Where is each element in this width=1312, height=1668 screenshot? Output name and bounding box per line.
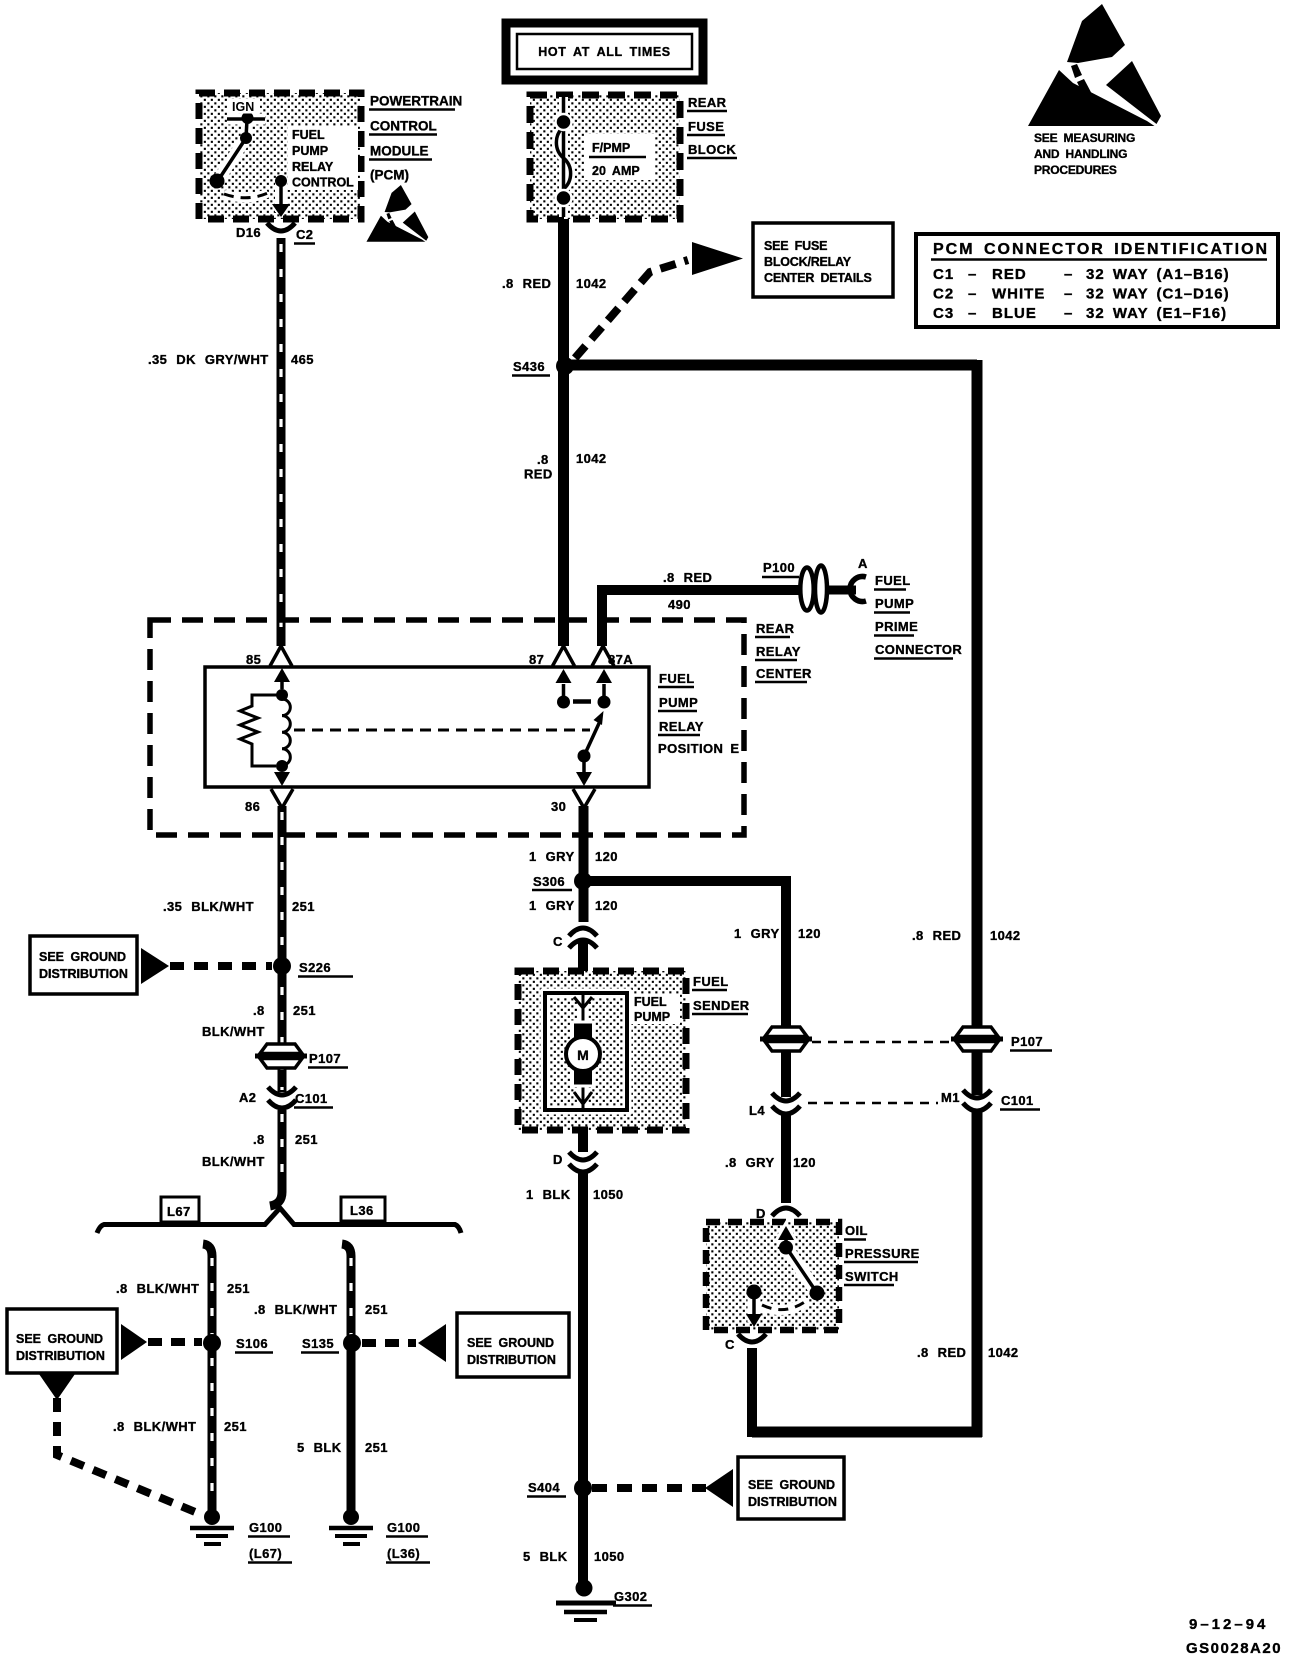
see ground distribution box (S135) bbox=[457, 1313, 569, 1377]
svg-text:D: D bbox=[756, 1206, 766, 1221]
svg-text:SEE FUSE: SEE FUSE bbox=[764, 239, 827, 253]
ESD symbol small near PCM bbox=[366, 185, 428, 242]
L36 option label box bbox=[341, 1197, 385, 1221]
label FUEL PUMP RELAY CONTROL bbox=[288, 126, 358, 190]
svg-text:CENTER: CENTER bbox=[756, 666, 812, 681]
svg-text:.8: .8 bbox=[253, 1132, 265, 1147]
wire: .8 GRY 120 from L4 to oil pressure switch D bbox=[781, 1113, 791, 1203]
terminal A fuel pump prime connector (crescent) bbox=[850, 577, 866, 602]
svg-text:DISTRIBUTION: DISTRIBUTION bbox=[39, 967, 128, 981]
svg-text:–: – bbox=[968, 305, 977, 322]
svg-text:–: – bbox=[1064, 305, 1073, 322]
svg-text:S135: S135 bbox=[302, 1336, 334, 1351]
svg-text:G100: G100 bbox=[387, 1520, 420, 1535]
svg-text:86: 86 bbox=[245, 799, 260, 814]
relay pin 87A fork bbox=[592, 646, 614, 666]
svg-text:PUMP: PUMP bbox=[875, 596, 914, 611]
svg-text:P107: P107 bbox=[1011, 1034, 1043, 1049]
svg-text:465: 465 bbox=[291, 352, 314, 367]
svg-text:PUMP: PUMP bbox=[292, 144, 328, 158]
wire: bottom horizontal from oil pressure switch C to red wire bbox=[752, 1427, 982, 1438]
svg-text:.8 RED: .8 RED bbox=[917, 1345, 966, 1360]
svg-text:(L67): (L67) bbox=[249, 1546, 282, 1561]
label SEE FUSE BLOCK/RELAY CENTER DETAILS bbox=[764, 239, 872, 285]
svg-text:FUEL: FUEL bbox=[693, 974, 729, 989]
connector D16/C2 at PCM (single arc) bbox=[267, 223, 295, 231]
PCM box (stippled) powertrain control module bbox=[199, 93, 361, 219]
label POWERTRAIN CONTROL MODULE (PCM) bbox=[370, 94, 462, 183]
connector D at fuel sender (two arcs) bbox=[569, 1152, 597, 1160]
svg-text:.8 GRY: .8 GRY bbox=[725, 1155, 775, 1170]
relay coil with resistor bbox=[240, 668, 290, 786]
label FUEL PUMP PRIME CONNECTOR bbox=[875, 573, 962, 657]
svg-text:251: 251 bbox=[227, 1281, 250, 1296]
svg-text:1042: 1042 bbox=[988, 1345, 1019, 1360]
svg-text:32 WAY (C1–D16): 32 WAY (C1–D16) bbox=[1086, 286, 1230, 303]
rear relay center (dashed box) bbox=[150, 620, 744, 835]
node S404 splice bbox=[574, 1479, 592, 1497]
node S436 splice bbox=[556, 357, 574, 375]
HOT AT ALL TIMES box bbox=[506, 23, 703, 80]
svg-text:120: 120 bbox=[798, 926, 821, 941]
svg-text:G100: G100 bbox=[249, 1520, 282, 1535]
wire: 1 BLK 1050 from sender D connector down to S404 and G302 bbox=[578, 1111, 588, 1152]
svg-text:C101: C101 bbox=[1001, 1093, 1034, 1108]
node S106 splice bbox=[203, 1334, 221, 1352]
svg-text:RELAY: RELAY bbox=[756, 644, 801, 659]
svg-text:DISTRIBUTION: DISTRIBUTION bbox=[748, 1495, 837, 1509]
connector P107 on BLK/WHT wire bbox=[255, 1044, 307, 1068]
svg-text:PROCEDURES: PROCEDURES bbox=[1034, 163, 1117, 177]
wire: L36 branch .8 BLK/WHT 251 then 5 BLK 251 bbox=[342, 1244, 351, 1512]
svg-text:251: 251 bbox=[224, 1419, 247, 1434]
svg-text:A2: A2 bbox=[239, 1090, 256, 1105]
svg-text:1 BLK: 1 BLK bbox=[526, 1187, 571, 1202]
svg-text:.8: .8 bbox=[253, 1003, 265, 1018]
connector L4 on GRY wire (two arcs) bbox=[772, 1093, 800, 1101]
svg-text:SEE GROUND: SEE GROUND bbox=[16, 1332, 103, 1346]
svg-text:–: – bbox=[968, 286, 977, 303]
relay pin 85 fork bbox=[270, 646, 292, 666]
svg-text:C101: C101 bbox=[295, 1091, 328, 1106]
connector C at oil pressure switch (single arc) bbox=[738, 1334, 766, 1342]
label IGN bbox=[228, 99, 260, 113]
see fuse block/relay center details box bbox=[753, 223, 893, 297]
svg-text:.8 RED: .8 RED bbox=[502, 276, 551, 291]
svg-text:SENDER: SENDER bbox=[693, 998, 750, 1013]
PCM connector identification box bbox=[916, 234, 1278, 327]
svg-text:P107: P107 bbox=[309, 1051, 341, 1066]
svg-text:PCM CONNECTOR IDENTIFICATION: PCM CONNECTOR IDENTIFICATION bbox=[933, 241, 1269, 258]
svg-text:87: 87 bbox=[529, 652, 544, 667]
node S135 splice bbox=[343, 1334, 361, 1352]
label REAR RELAY CENTER bbox=[756, 621, 812, 681]
svg-text:87A: 87A bbox=[608, 652, 633, 667]
svg-text:L36: L36 bbox=[350, 1203, 374, 1218]
dashed link S226 to see-ground-distribution bbox=[170, 962, 272, 970]
svg-text:PUMP: PUMP bbox=[659, 695, 698, 710]
label OIL PRESSURE SWITCH bbox=[845, 1223, 920, 1284]
svg-text:AND HANDLING: AND HANDLING bbox=[1034, 147, 1127, 161]
svg-text:251: 251 bbox=[365, 1440, 388, 1455]
svg-text:120: 120 bbox=[595, 898, 618, 913]
svg-text:FUEL: FUEL bbox=[875, 573, 911, 588]
svg-text:SWITCH: SWITCH bbox=[845, 1269, 899, 1284]
relay contacts 87/87A/30 bbox=[556, 669, 613, 786]
relay pin 86 fork bbox=[271, 789, 293, 808]
svg-text:1050: 1050 bbox=[593, 1187, 624, 1202]
svg-text:.8 RED: .8 RED bbox=[663, 570, 712, 585]
svg-text:D16: D16 bbox=[236, 225, 261, 240]
svg-text:GS0028A20: GS0028A20 bbox=[1186, 1640, 1282, 1657]
svg-text:(PCM): (PCM) bbox=[370, 168, 409, 183]
oil pressure switch contacts bbox=[746, 1226, 825, 1327]
svg-text:FUEL: FUEL bbox=[659, 671, 695, 686]
relay pin 30 fork bbox=[573, 789, 595, 808]
wire: fuel sender feed between C connector and sender box bbox=[578, 941, 588, 996]
svg-text:SEE GROUND: SEE GROUND bbox=[748, 1478, 835, 1492]
svg-text:1042: 1042 bbox=[990, 928, 1021, 943]
svg-text:251: 251 bbox=[295, 1132, 318, 1147]
svg-text:5 BLK: 5 BLK bbox=[523, 1549, 568, 1564]
see ground distribution box (S226) bbox=[30, 936, 137, 994]
svg-text:L4: L4 bbox=[749, 1103, 765, 1118]
oil pressure switch (stippled box) bbox=[706, 1222, 839, 1330]
dashed arrow from S436 to see-fuse-block note bbox=[575, 260, 688, 358]
svg-text:–: – bbox=[1064, 286, 1073, 303]
wire: right vertical .8 RED 1042 lower segment bbox=[972, 1111, 983, 1437]
rear fuse block (stippled box) bbox=[530, 95, 680, 219]
svg-text:PRIME: PRIME bbox=[875, 619, 918, 634]
ground G302 bbox=[576, 1580, 593, 1597]
svg-text:RED: RED bbox=[992, 266, 1027, 283]
wire: S306 branch right 1 GRY 120 bbox=[588, 881, 786, 1030]
connector P100 inline lenses bbox=[800, 568, 813, 611]
svg-text:BLOCK: BLOCK bbox=[688, 142, 736, 157]
svg-text:A: A bbox=[858, 556, 868, 571]
svg-text:20 AMP: 20 AMP bbox=[592, 164, 640, 178]
svg-text:RED: RED bbox=[524, 467, 553, 482]
svg-text:DISTRIBUTION: DISTRIBUTION bbox=[467, 1353, 556, 1367]
label F/PMP 20 AMP bbox=[584, 134, 654, 180]
svg-text:.8 RED: .8 RED bbox=[912, 928, 961, 943]
dashed link S106 to see-ground-distribution bbox=[148, 1338, 202, 1346]
svg-text:S436: S436 bbox=[513, 359, 545, 374]
svg-text:CONTROL: CONTROL bbox=[370, 119, 437, 134]
svg-text:PUMP: PUMP bbox=[634, 1010, 670, 1024]
fuel pump relay control switch inside PCM bbox=[210, 112, 291, 217]
svg-text:DISTRIBUTION: DISTRIBUTION bbox=[16, 1349, 105, 1363]
svg-text:32 WAY (E1–F16): 32 WAY (E1–F16) bbox=[1086, 305, 1227, 322]
svg-text:5 BLK: 5 BLK bbox=[297, 1440, 342, 1455]
connector C at fuel sender (two arcs) bbox=[569, 928, 597, 936]
svg-text:SEE GROUND: SEE GROUND bbox=[39, 950, 126, 964]
svg-text:POSITION E: POSITION E bbox=[658, 741, 739, 756]
svg-text:.35 DK GRY/WHT: .35 DK GRY/WHT bbox=[148, 352, 269, 367]
svg-text:BLUE: BLUE bbox=[992, 305, 1037, 322]
wire: engine option split bracket L67/L36 bbox=[97, 1208, 461, 1233]
thin dashed association line L4 to M1 C101 bbox=[808, 1102, 938, 1105]
svg-text:MODULE: MODULE bbox=[370, 144, 429, 159]
wire: .8 RED 490 to fuel pump prime connector A bbox=[820, 586, 856, 595]
svg-text:SEE MEASURING: SEE MEASURING bbox=[1034, 131, 1135, 145]
dashed link S404 to see-ground-distribution bbox=[592, 1484, 706, 1492]
svg-text:SEE GROUND: SEE GROUND bbox=[467, 1336, 554, 1350]
wire: L67 branch .8 BLK/WHT 251 (striped) bbox=[203, 1244, 212, 1512]
wire: right vertical .8 RED 1042 upper segment bbox=[972, 360, 983, 1095]
wire: PCM D16 riser .35 DK GRY/WHT 465 (striped) bbox=[277, 238, 286, 646]
svg-text:CONTROL: CONTROL bbox=[292, 176, 354, 190]
node S306 splice bbox=[574, 872, 592, 890]
svg-text:490: 490 bbox=[668, 597, 691, 612]
connector P107 on RED wire bbox=[951, 1027, 1003, 1051]
svg-text:.8 BLK/WHT: .8 BLK/WHT bbox=[113, 1419, 196, 1434]
svg-text:30: 30 bbox=[551, 799, 566, 814]
fuse F/PMP 20 AMP inside rear fuse block bbox=[556, 97, 572, 217]
fuel sender (stippled box) bbox=[518, 971, 686, 1130]
svg-text:1042: 1042 bbox=[576, 276, 607, 291]
svg-text:.35 BLK/WHT: .35 BLK/WHT bbox=[163, 899, 254, 914]
svg-text:D: D bbox=[553, 1152, 563, 1167]
svg-text:M1: M1 bbox=[941, 1090, 960, 1105]
label SEE MEASURING AND HANDLING PROCEDURES bbox=[1034, 131, 1135, 177]
svg-text:CONNECTOR: CONNECTOR bbox=[875, 642, 962, 657]
connector C101 M1 on RED wire (two arcs) bbox=[963, 1090, 991, 1098]
svg-text:85: 85 bbox=[246, 652, 261, 667]
svg-text:1 GRY: 1 GRY bbox=[529, 849, 575, 864]
wire: S436 horizontal branch to right .8 RED 1042 bbox=[565, 360, 977, 371]
label REAR FUSE BLOCK bbox=[688, 95, 736, 157]
connector C101 A2 on left wire (two arcs) bbox=[268, 1087, 296, 1095]
svg-text:FUEL: FUEL bbox=[292, 128, 325, 142]
wire: fuse riser .8 RED 1042 from rear fuse block down to relay pin 87 bbox=[558, 219, 569, 646]
svg-text:IGN: IGN bbox=[232, 100, 254, 114]
connector D at oil pressure switch (single arc) bbox=[772, 1208, 800, 1216]
see ground distribution box (S106) bbox=[7, 1309, 117, 1373]
svg-text:RELAY: RELAY bbox=[292, 160, 334, 174]
svg-text:OIL: OIL bbox=[845, 1223, 868, 1238]
ESD symbol large (see measuring and handling procedures) bbox=[1028, 4, 1161, 126]
svg-text:1 GRY: 1 GRY bbox=[734, 926, 780, 941]
wire: 87A riser and corner to .8 RED 490 horizontal bbox=[602, 590, 802, 646]
svg-text:G302: G302 bbox=[614, 1589, 647, 1604]
svg-text:BLK/WHT: BLK/WHT bbox=[202, 1154, 265, 1169]
svg-text:S404: S404 bbox=[528, 1480, 560, 1495]
svg-text:REAR: REAR bbox=[756, 621, 795, 636]
svg-text:L67: L67 bbox=[167, 1204, 191, 1219]
label FUEL PUMP (inside sender) bbox=[630, 994, 680, 1024]
svg-text:C2: C2 bbox=[296, 227, 313, 242]
svg-text:BLK/WHT: BLK/WHT bbox=[202, 1024, 265, 1039]
svg-text:C1: C1 bbox=[933, 266, 954, 283]
svg-text:120: 120 bbox=[793, 1155, 816, 1170]
svg-text:CENTER DETAILS: CENTER DETAILS bbox=[764, 271, 872, 285]
node S226 splice bbox=[273, 957, 291, 975]
wire: below C101 .8 BLK/WHT 251 (striped) with end hook bbox=[270, 1110, 282, 1206]
svg-text:C: C bbox=[725, 1337, 735, 1352]
svg-text:32 WAY (A1–B16): 32 WAY (A1–B16) bbox=[1086, 266, 1230, 283]
relay pin 87 fork bbox=[553, 646, 575, 666]
svg-text:C3: C3 bbox=[933, 305, 954, 322]
dashed line from coil to contact arm bbox=[294, 729, 590, 732]
ground G100 (L36) bbox=[343, 1509, 359, 1525]
svg-text:–: – bbox=[1064, 266, 1073, 283]
svg-text:–: – bbox=[968, 266, 977, 283]
svg-text:C: C bbox=[553, 934, 563, 949]
svg-text:S306: S306 bbox=[533, 874, 565, 889]
dashed link S135 to see-ground-distribution bbox=[362, 1339, 416, 1347]
svg-text:REAR: REAR bbox=[688, 95, 727, 110]
svg-text:.8 BLK/WHT: .8 BLK/WHT bbox=[254, 1302, 337, 1317]
svg-text:S226: S226 bbox=[299, 960, 331, 975]
svg-text:120: 120 bbox=[595, 849, 618, 864]
fuel pump motor inside sender bbox=[545, 993, 627, 1110]
wire: relay pin 30 down 1 GRY 120 to S306 bbox=[579, 806, 589, 922]
svg-text:PRESSURE: PRESSURE bbox=[845, 1246, 920, 1261]
thin dashed association line P107 to P107 bbox=[812, 1041, 950, 1044]
svg-text:1050: 1050 bbox=[594, 1549, 625, 1564]
svg-text:251: 251 bbox=[292, 899, 315, 914]
svg-text:M: M bbox=[577, 1047, 589, 1063]
svg-text:1042: 1042 bbox=[576, 451, 607, 466]
svg-text:S106: S106 bbox=[236, 1336, 268, 1351]
svg-text:1 GRY: 1 GRY bbox=[529, 898, 575, 913]
wire: GRY branch through P107 down to L4 bbox=[781, 1048, 791, 1097]
fuel pump relay box bbox=[205, 667, 649, 787]
dashed link below left see-ground-distribution box to G100 bbox=[39, 1374, 75, 1400]
wire: relay pin 86 down .35 BLK/WHT 251 (striped) bbox=[278, 806, 287, 1092]
svg-text:251: 251 bbox=[365, 1302, 388, 1317]
svg-text:FUEL: FUEL bbox=[634, 995, 667, 1009]
svg-text:C2: C2 bbox=[933, 286, 954, 303]
L67 option label box bbox=[161, 1197, 199, 1222]
svg-text:WHITE: WHITE bbox=[992, 286, 1045, 303]
svg-text:F/PMP: F/PMP bbox=[592, 141, 630, 155]
svg-text:(L36): (L36) bbox=[387, 1546, 420, 1561]
see ground distribution box (S404) bbox=[738, 1457, 844, 1519]
wire: oil pressure switch C lead down bbox=[747, 1348, 757, 1437]
svg-text:.8 BLK/WHT: .8 BLK/WHT bbox=[116, 1281, 199, 1296]
svg-text:POWERTRAIN: POWERTRAIN bbox=[370, 94, 462, 109]
ground G100 (L67) bbox=[204, 1509, 220, 1525]
svg-text:FUSE: FUSE bbox=[688, 119, 724, 134]
svg-text:RELAY: RELAY bbox=[659, 719, 704, 734]
label FUEL PUMP RELAY POSITION E bbox=[658, 671, 739, 756]
svg-text:.8: .8 bbox=[537, 452, 549, 467]
svg-text:P100: P100 bbox=[763, 560, 795, 575]
connector P107 on GRY wire bbox=[760, 1027, 812, 1051]
svg-text:9–12–94: 9–12–94 bbox=[1189, 1616, 1268, 1633]
svg-text:BLOCK/RELAY: BLOCK/RELAY bbox=[764, 255, 852, 269]
svg-text:HOT AT ALL TIMES: HOT AT ALL TIMES bbox=[538, 45, 670, 59]
svg-text:251: 251 bbox=[293, 1003, 316, 1018]
